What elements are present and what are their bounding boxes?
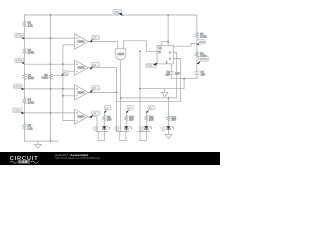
node dot tap2/x51 bbox=[50, 63, 52, 65]
svg-text:1uF: 1uF bbox=[165, 73, 170, 76]
svg-text:red: red bbox=[93, 129, 97, 132]
node dot tap2/x63 bbox=[62, 63, 64, 65]
wire C1 to node bbox=[170, 74, 172, 79]
LED D2 bbox=[124, 126, 132, 130]
wire CMP3 output joining bus bbox=[88, 91, 116, 93]
node dot gate in2 branch bbox=[139, 50, 141, 52]
svg-text:CMP3: CMP3 bbox=[77, 91, 85, 94]
wire LED2 down bbox=[125, 129, 127, 132]
node flag CMP2 minus input bbox=[61, 71, 68, 76]
resistor R9 bbox=[103, 115, 106, 122]
wire LED2 bottom crossbar bbox=[117, 131, 130, 133]
node dot tap3/x51 bbox=[50, 88, 52, 90]
ground G3 left bbox=[35, 141, 42, 148]
op-amp CMP2 bbox=[75, 60, 89, 75]
svg-text:CMP1: CMP1 bbox=[77, 41, 85, 44]
wire ground branch bbox=[140, 79, 184, 89]
node dot gate out / feed A bbox=[120, 97, 122, 99]
wire R9 to LED1 bbox=[103, 122, 105, 126]
svg-text:2.49k: 2.49k bbox=[28, 77, 35, 80]
op-amp CMP1 bbox=[75, 34, 89, 49]
wire CMP2 output down to LED2 column bbox=[88, 68, 116, 132]
svg-text:VREF: VREF bbox=[199, 41, 206, 44]
svg-text:LAB: LAB bbox=[19, 160, 28, 164]
ground G1 bbox=[161, 89, 168, 97]
resistor R1 bbox=[23, 21, 26, 28]
wire tap3 to CMP3 + bbox=[25, 88, 75, 90]
svg-text:150: 150 bbox=[172, 119, 177, 122]
wire LED1 down bbox=[103, 129, 105, 132]
svg-text:VREF2: VREF2 bbox=[200, 58, 209, 61]
wire gate input 2 to IC left pin bbox=[124, 41, 158, 52]
svg-text:1.5k: 1.5k bbox=[28, 127, 33, 130]
wire right rail seg3 bbox=[196, 56, 198, 72]
wire cap node horizontal bbox=[171, 78, 197, 80]
svg-text:O2: O2 bbox=[93, 64, 97, 67]
svg-text:red: red bbox=[115, 129, 119, 132]
wire left rail seg5 bbox=[24, 104, 26, 123]
node flag CMP2 out bbox=[89, 62, 99, 69]
wire tap2 to CMP2 + bbox=[25, 63, 75, 65]
LED D3 bbox=[144, 126, 152, 130]
wire vertical bus at x=63 bbox=[63, 44, 75, 46]
node dot tap4/x51 bbox=[50, 112, 52, 114]
node dot tap3/x63 bbox=[62, 88, 64, 90]
LED string 1 : wire from flag to R9 bbox=[103, 112, 105, 116]
svg-text:150: 150 bbox=[107, 118, 112, 121]
flags bbox=[13, 9, 209, 118]
wire top supply rail bbox=[25, 14, 197, 16]
node dot cmp3 minus bbox=[62, 95, 64, 97]
resistor R11 bbox=[145, 115, 148, 122]
svg-text:3.75V: 3.75V bbox=[16, 35, 23, 38]
svg-text:1.00k: 1.00k bbox=[41, 76, 48, 79]
svg-text:O1: O1 bbox=[93, 37, 97, 40]
svg-text:1uF: 1uF bbox=[201, 73, 206, 76]
resistor R12 bbox=[167, 116, 170, 122]
wire R12 to LED4 bbox=[168, 121, 170, 126]
resistor R10 bbox=[125, 115, 128, 122]
wire right rail seg2 bbox=[196, 38, 198, 51]
node flag CMP3 out bbox=[89, 86, 99, 93]
node flag IC bottom bbox=[146, 62, 158, 67]
wire left rail bottom + bottom wire bbox=[25, 130, 59, 141]
wire left rail seg2 bbox=[24, 27, 26, 47]
wire IC bottom pin bbox=[170, 64, 172, 72]
node dot ground wire x140 bbox=[139, 88, 141, 90]
svg-text:1uF: 1uF bbox=[175, 72, 180, 75]
wire IC right pin3 feed bbox=[117, 59, 181, 102]
svg-text:CMP4: CMP4 bbox=[77, 116, 85, 119]
LED string 2 : wire from flag to R10 bbox=[125, 112, 127, 116]
node flag right rail upper bbox=[197, 40, 207, 46]
wire branch x=140 down to LED3 column bbox=[139, 51, 141, 131]
node dot string4 feed bbox=[168, 97, 170, 99]
LED D1 bbox=[102, 126, 110, 130]
wire IC right pin1 to right rail bbox=[173, 43, 197, 46]
node dot rail/x51 bbox=[50, 14, 52, 16]
resistor R8 bbox=[195, 51, 198, 56]
svg-text:1.87V: 1.87V bbox=[14, 85, 21, 88]
svg-text:IN: IN bbox=[158, 51, 161, 54]
node flag LED string2 bbox=[126, 105, 134, 112]
svg-text:O3: O3 bbox=[93, 87, 97, 90]
footer bar bbox=[0, 152, 220, 165]
IC U1 box bbox=[157, 45, 173, 64]
wire IC top pins to rail bbox=[161, 42, 168, 46]
wire CMP1 output to gate input 1 bbox=[88, 42, 118, 49]
node flag VD ladder tap4 bbox=[13, 108, 25, 114]
meter box M2 bbox=[120, 132, 126, 141]
node dot cmp3 out join bbox=[116, 92, 118, 94]
resistor R4 bbox=[23, 98, 26, 105]
node dot IC top bridge bbox=[167, 41, 169, 43]
svg-text:red: red bbox=[161, 129, 165, 132]
wire left rail seg3 bbox=[24, 54, 26, 73]
svg-text:O4: O4 bbox=[93, 112, 97, 115]
wire C2 to node bbox=[196, 74, 198, 79]
wire left rail top segment bbox=[24, 15, 26, 21]
meter box M1 bbox=[98, 132, 104, 141]
node flag right rail lower bbox=[197, 57, 209, 65]
wire R10 to LED2 bbox=[125, 122, 127, 126]
ground G2 bbox=[165, 134, 172, 138]
wire LED3 bottom crossbar bbox=[138, 131, 150, 133]
wire IC right pin2 feed bbox=[121, 52, 177, 98]
node flag top rail VIN bbox=[113, 9, 123, 16]
svg-text:150: 150 bbox=[129, 118, 134, 121]
gate AND1 (pointing down) bbox=[116, 49, 126, 60]
svg-text:1.24k: 1.24k bbox=[200, 36, 207, 39]
svg-text:red: red bbox=[140, 129, 144, 132]
node flag VB ladder tap2 bbox=[15, 58, 25, 64]
svg-text:AND1: AND1 bbox=[118, 53, 125, 56]
node flag CMP4 out bbox=[89, 111, 99, 118]
wire CMP2 minus from R6 bbox=[53, 71, 75, 75]
node flag CMP1 out bbox=[89, 35, 99, 42]
svg-text:2.49k: 2.49k bbox=[28, 102, 35, 105]
node flag VC ladder tap3 bbox=[13, 84, 24, 90]
LED D4 bbox=[166, 126, 174, 130]
wire LED3 down bbox=[145, 129, 147, 132]
wire gate output down bbox=[120, 60, 122, 132]
wire left rail seg4 bbox=[24, 80, 26, 98]
svg-text:CMP2: CMP2 bbox=[77, 67, 85, 70]
resistor R5 bbox=[23, 123, 26, 130]
node dot cap node bbox=[183, 78, 185, 80]
junction dots bbox=[50, 14, 185, 142]
wire R11 to LED3 bbox=[145, 122, 147, 126]
node flag LED string3 bbox=[146, 105, 154, 112]
svg-text:http://circuitlab.com/c8T93065: http://circuitlab.com/c8T93065c3g bbox=[55, 156, 100, 160]
wire right rail top bbox=[196, 15, 198, 32]
wire vertical bus at x=51 bbox=[50, 15, 52, 74]
svg-text:2.49k: 2.49k bbox=[28, 52, 35, 55]
wire CMP4 minus bbox=[63, 120, 75, 122]
op-amp CMP3 bbox=[75, 85, 89, 100]
capacitor C2 bbox=[195, 72, 199, 74]
svg-text:VCC: VCC bbox=[114, 11, 119, 14]
wire LED string 4 feed bbox=[168, 98, 170, 116]
wire tap1 to CMP1 + bbox=[25, 37, 75, 39]
svg-text:1.5k: 1.5k bbox=[28, 25, 33, 28]
svg-text:1.25V: 1.25V bbox=[14, 109, 21, 112]
resistor R3 bbox=[23, 73, 26, 80]
svg-text:VX: VX bbox=[64, 72, 68, 75]
wire vertical bus x=51 lower bbox=[50, 80, 52, 142]
resistor R2 bbox=[23, 48, 26, 55]
node flag LED string1 bbox=[104, 105, 111, 112]
wire LED1 bottom crossbar bbox=[96, 131, 108, 133]
wire tap4 to CMP4 + bbox=[25, 112, 75, 114]
wire CMP3 minus bbox=[63, 95, 75, 97]
meter box M3 bbox=[140, 132, 146, 141]
op-amp CMP4 bbox=[75, 109, 89, 124]
svg-text:150: 150 bbox=[149, 118, 154, 121]
svg-text:2.50V: 2.50V bbox=[16, 60, 23, 63]
LED string 3 : wire from flag to R11 bbox=[145, 112, 147, 116]
resistor R7 bbox=[195, 32, 198, 39]
svg-text:GND: GND bbox=[147, 65, 153, 68]
node flag VA ladder tap1 bbox=[15, 33, 25, 39]
wire CMP4 output down to LED1 column bbox=[88, 117, 97, 132]
node dot tap1/x51 bbox=[50, 37, 52, 39]
node dot x51 bottom bbox=[50, 140, 52, 142]
wire LED4 to ground bbox=[168, 129, 170, 134]
capacitor C1 bbox=[169, 72, 173, 74]
node dot rail/IC riser bbox=[167, 14, 169, 16]
resistor R6 mid bbox=[49, 74, 52, 80]
